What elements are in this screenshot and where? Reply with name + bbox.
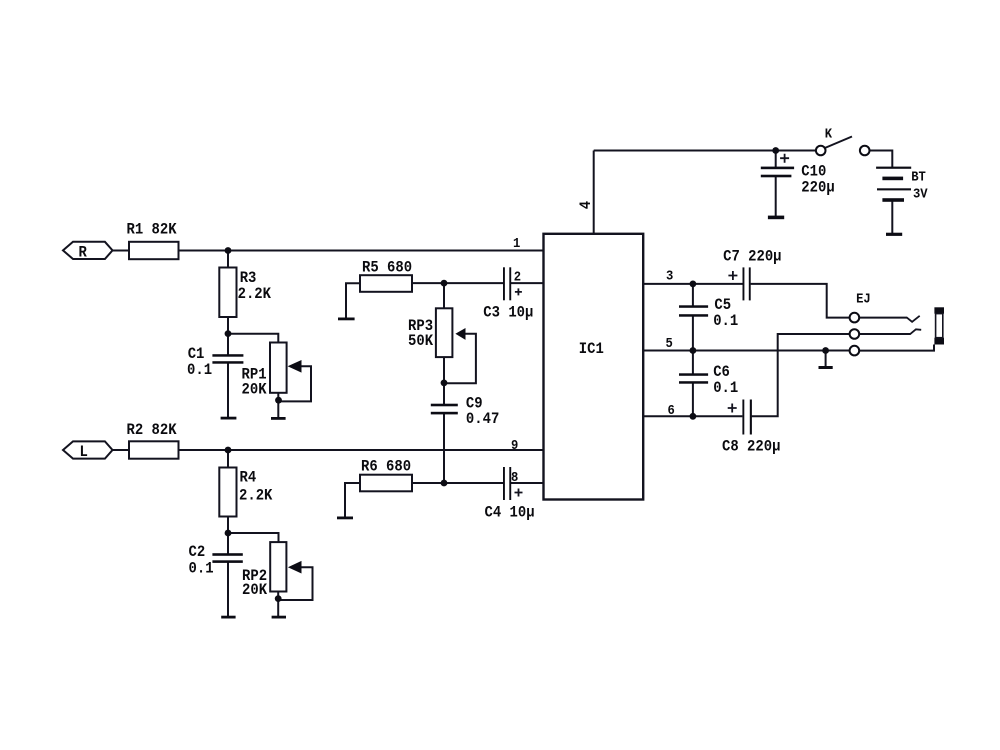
svg-text:8: 8 bbox=[511, 469, 518, 485]
capacitor C3 10u plates bbox=[503, 267, 505, 300]
svg-text:0.1: 0.1 bbox=[713, 312, 738, 330]
potentiometer RP3 wiper arrow bbox=[455, 328, 465, 340]
wire node B to RP1 top bbox=[228, 334, 278, 343]
pin 6 junction bbox=[690, 413, 697, 420]
resistor R5 680 body bbox=[360, 275, 412, 292]
svg-text:EJ: EJ bbox=[856, 291, 871, 307]
svg-text:4: 4 bbox=[577, 201, 595, 209]
jack EJ plug body bottom bbox=[934, 338, 944, 345]
capacitor C8 220u plates bbox=[742, 400, 744, 435]
wire C2 bottom plate to ground bbox=[227, 562, 229, 617]
capacitor C4 10u plates bbox=[503, 467, 505, 500]
RP1 bottom junction bbox=[275, 397, 282, 404]
plus sign of C4 bbox=[515, 489, 523, 497]
RP2 bottom junction bbox=[275, 595, 282, 602]
svg-text:R5 680: R5 680 bbox=[362, 259, 412, 277]
jack EJ plug body top bbox=[934, 307, 944, 313]
wire jack ring contact line bbox=[859, 333, 910, 335]
ground at R5 bbox=[338, 318, 355, 321]
svg-text:3V: 3V bbox=[913, 186, 928, 202]
ground below RP1 bbox=[271, 417, 286, 420]
ground below C2 bbox=[221, 616, 235, 619]
svg-text:BT: BT bbox=[911, 169, 926, 185]
switch K lever bbox=[825, 137, 852, 149]
plus sign of C8 bbox=[728, 404, 737, 413]
wire C10 bottom plate to ground bar bbox=[775, 176, 777, 217]
wire C1 bottom plate to ground bbox=[227, 363, 229, 419]
svg-text:5: 5 bbox=[666, 335, 673, 351]
pin 5 junction bbox=[690, 347, 697, 354]
pin 3 junction bbox=[690, 281, 697, 288]
battery BT plates bbox=[876, 167, 911, 169]
ground below C1 bbox=[221, 417, 237, 420]
wire battery BT negative to ground bbox=[891, 200, 893, 234]
resistor R6 680 body bbox=[360, 475, 412, 492]
resistor R3 2.2K body bbox=[219, 268, 236, 318]
potentiometer RP1 body bbox=[270, 343, 287, 393]
capacitor C7 220u plates bbox=[743, 267, 745, 300]
wire RP3 wiper loop bbox=[444, 334, 476, 384]
wire IC1 pin 3 to C7 left plate bbox=[643, 283, 742, 285]
svg-text:C7 220µ: C7 220µ bbox=[723, 248, 781, 266]
EJ ground junction bbox=[822, 347, 829, 354]
wire jack sleeve to plug body bbox=[859, 345, 934, 351]
svg-text:0.1: 0.1 bbox=[187, 361, 212, 379]
jack EJ plug middle outline bbox=[936, 314, 943, 338]
svg-text:R6 680: R6 680 bbox=[361, 458, 411, 476]
connector R hexagon bbox=[63, 242, 113, 259]
wire IC1 pin 6 to C8 left plate bbox=[643, 415, 742, 417]
wire pin 4 to switch K bbox=[594, 150, 816, 152]
switch K left terminal bbox=[816, 146, 826, 156]
capacitor C2 0.1 plates bbox=[212, 553, 242, 556]
wire EJ ground stub bbox=[825, 351, 827, 368]
wire C5 lower link bbox=[692, 316, 694, 351]
plus sign of C7 bbox=[728, 271, 737, 280]
wire C6 lower link bbox=[692, 383, 694, 417]
capacitor C1 0.1 plates bbox=[212, 354, 243, 357]
ground at R6 bbox=[337, 517, 353, 520]
node F junction bbox=[441, 380, 448, 387]
node B junction bbox=[225, 330, 232, 337]
ground below battery BT bbox=[886, 233, 902, 236]
capacitor C10 220u plates bbox=[761, 167, 794, 170]
wire RP2 wiper loop bbox=[278, 567, 313, 600]
jack EJ ring terminal bbox=[850, 329, 860, 339]
svg-text:2.2K: 2.2K bbox=[238, 285, 271, 303]
wire RP3 bottom to node F bbox=[443, 357, 445, 384]
wire C7 right plate to jack EJ tip bbox=[751, 284, 850, 318]
ground below C10 bbox=[768, 216, 784, 220]
wire R3 bottom to node B bbox=[227, 317, 229, 335]
node E junction bbox=[441, 280, 448, 287]
wire C6 upper link bbox=[692, 351, 694, 375]
svg-text:3: 3 bbox=[666, 268, 673, 284]
svg-text:50K: 50K bbox=[408, 332, 433, 350]
svg-text:220µ: 220µ bbox=[801, 179, 834, 197]
wire R6 right to C4 left plate bbox=[412, 482, 504, 484]
svg-text:9: 9 bbox=[511, 437, 518, 453]
potentiometer RP3 body bbox=[436, 308, 453, 357]
jack EJ tip terminal bbox=[850, 313, 860, 323]
wire C4 right plate to IC1 pin 8 bbox=[510, 482, 543, 484]
svg-text:20K: 20K bbox=[242, 581, 267, 599]
capacitor C9 0.47 plates bbox=[431, 404, 458, 407]
wire node D to C2 top plate bbox=[227, 533, 229, 554]
wire node D to RP2 top bbox=[228, 533, 279, 542]
node D junction bbox=[225, 530, 232, 537]
wire C3 right plate to IC1 pin 2 bbox=[510, 282, 543, 284]
wire IC1 pin 5 to jack EJ sleeve bbox=[643, 350, 849, 352]
wire R4 bottom to node D bbox=[227, 517, 229, 535]
wire IC1 pin 4 vertical bbox=[593, 151, 595, 234]
wire R5 right to C3 left plate bbox=[412, 282, 504, 284]
node C junction bbox=[225, 447, 232, 454]
svg-text:C8 220µ: C8 220µ bbox=[722, 438, 780, 456]
svg-text:6: 6 bbox=[668, 402, 675, 418]
resistor R4 2.2K body bbox=[219, 468, 236, 517]
wire R input to R1 bbox=[112, 250, 129, 252]
svg-text:1: 1 bbox=[513, 235, 520, 251]
node A junction bbox=[225, 247, 232, 254]
svg-text:L: L bbox=[80, 443, 88, 461]
wire RP1 bottom to ground bbox=[277, 393, 279, 418]
wire RP1 wiper loop bbox=[279, 366, 311, 401]
jack tip switch contact bbox=[907, 316, 920, 322]
wire R2 to IC1 pin 9 bbox=[179, 449, 544, 451]
potentiometer RP2 wiper arrow bbox=[288, 561, 302, 574]
C10 top junction bbox=[772, 147, 779, 154]
capacitor C6 0.1 plates bbox=[679, 373, 708, 376]
wire node E to RP3 top bbox=[443, 283, 445, 308]
wire C10 top to ground bbox=[775, 151, 777, 168]
jack ring switch contact bbox=[910, 329, 921, 334]
wire node A to R3 top bbox=[227, 251, 229, 268]
svg-text:R4: R4 bbox=[240, 469, 257, 487]
switch K right terminal bbox=[860, 146, 870, 156]
wire switch K to battery BT bbox=[870, 151, 893, 168]
svg-text:R2 82K: R2 82K bbox=[127, 421, 177, 439]
wire node F to C9 top plate bbox=[443, 383, 445, 405]
potentiometer RP2 body bbox=[270, 542, 286, 591]
wire node B to C1 top plate bbox=[227, 334, 229, 355]
svg-text:C3 10µ: C3 10µ bbox=[483, 304, 533, 322]
wire node C to R4 top bbox=[227, 450, 229, 468]
svg-text:0.1: 0.1 bbox=[713, 379, 738, 397]
potentiometer RP1 wiper arrow bbox=[288, 360, 302, 373]
svg-text:R: R bbox=[79, 244, 87, 262]
wire R1 to IC1 pin 1 bbox=[179, 250, 544, 252]
connector L hexagon bbox=[63, 441, 113, 458]
capacitor C5 0.1 plates bbox=[679, 305, 708, 308]
node G junction bbox=[441, 480, 448, 487]
svg-text:IC1: IC1 bbox=[579, 340, 604, 358]
wire R6 left lead to ground bbox=[345, 483, 360, 518]
svg-text:0.1: 0.1 bbox=[189, 560, 214, 578]
wire C8 right plate to jack EJ ring bbox=[752, 334, 850, 416]
ground at jack EJ bbox=[819, 366, 833, 369]
svg-text:0.47: 0.47 bbox=[466, 410, 499, 428]
wire RP2 bottom to ground bbox=[277, 592, 279, 617]
wire R5 left lead to ground bbox=[346, 283, 360, 319]
wire C5 upper link bbox=[692, 284, 694, 307]
wire C9 bottom plate to node G bbox=[443, 413, 445, 483]
svg-text:2.2K: 2.2K bbox=[239, 487, 272, 505]
svg-text:R1 82K: R1 82K bbox=[127, 221, 177, 239]
jack EJ sleeve terminal bbox=[850, 346, 860, 356]
plus sign of C3 bbox=[515, 288, 522, 295]
resistor R1 82K body bbox=[129, 242, 179, 259]
resistor R2 82K body bbox=[129, 441, 179, 458]
plus sign of C10 bbox=[780, 154, 789, 163]
svg-text:2: 2 bbox=[514, 269, 521, 285]
svg-text:K: K bbox=[825, 126, 832, 142]
op-amp IC1 body bbox=[544, 234, 644, 500]
svg-text:C4 10µ: C4 10µ bbox=[485, 504, 535, 522]
ground below RP2 bbox=[272, 616, 286, 619]
svg-text:C2: C2 bbox=[189, 543, 206, 561]
svg-text:20K: 20K bbox=[242, 381, 267, 399]
wire L input to R2 bbox=[112, 449, 129, 451]
wire jack tip contact line bbox=[859, 317, 907, 319]
